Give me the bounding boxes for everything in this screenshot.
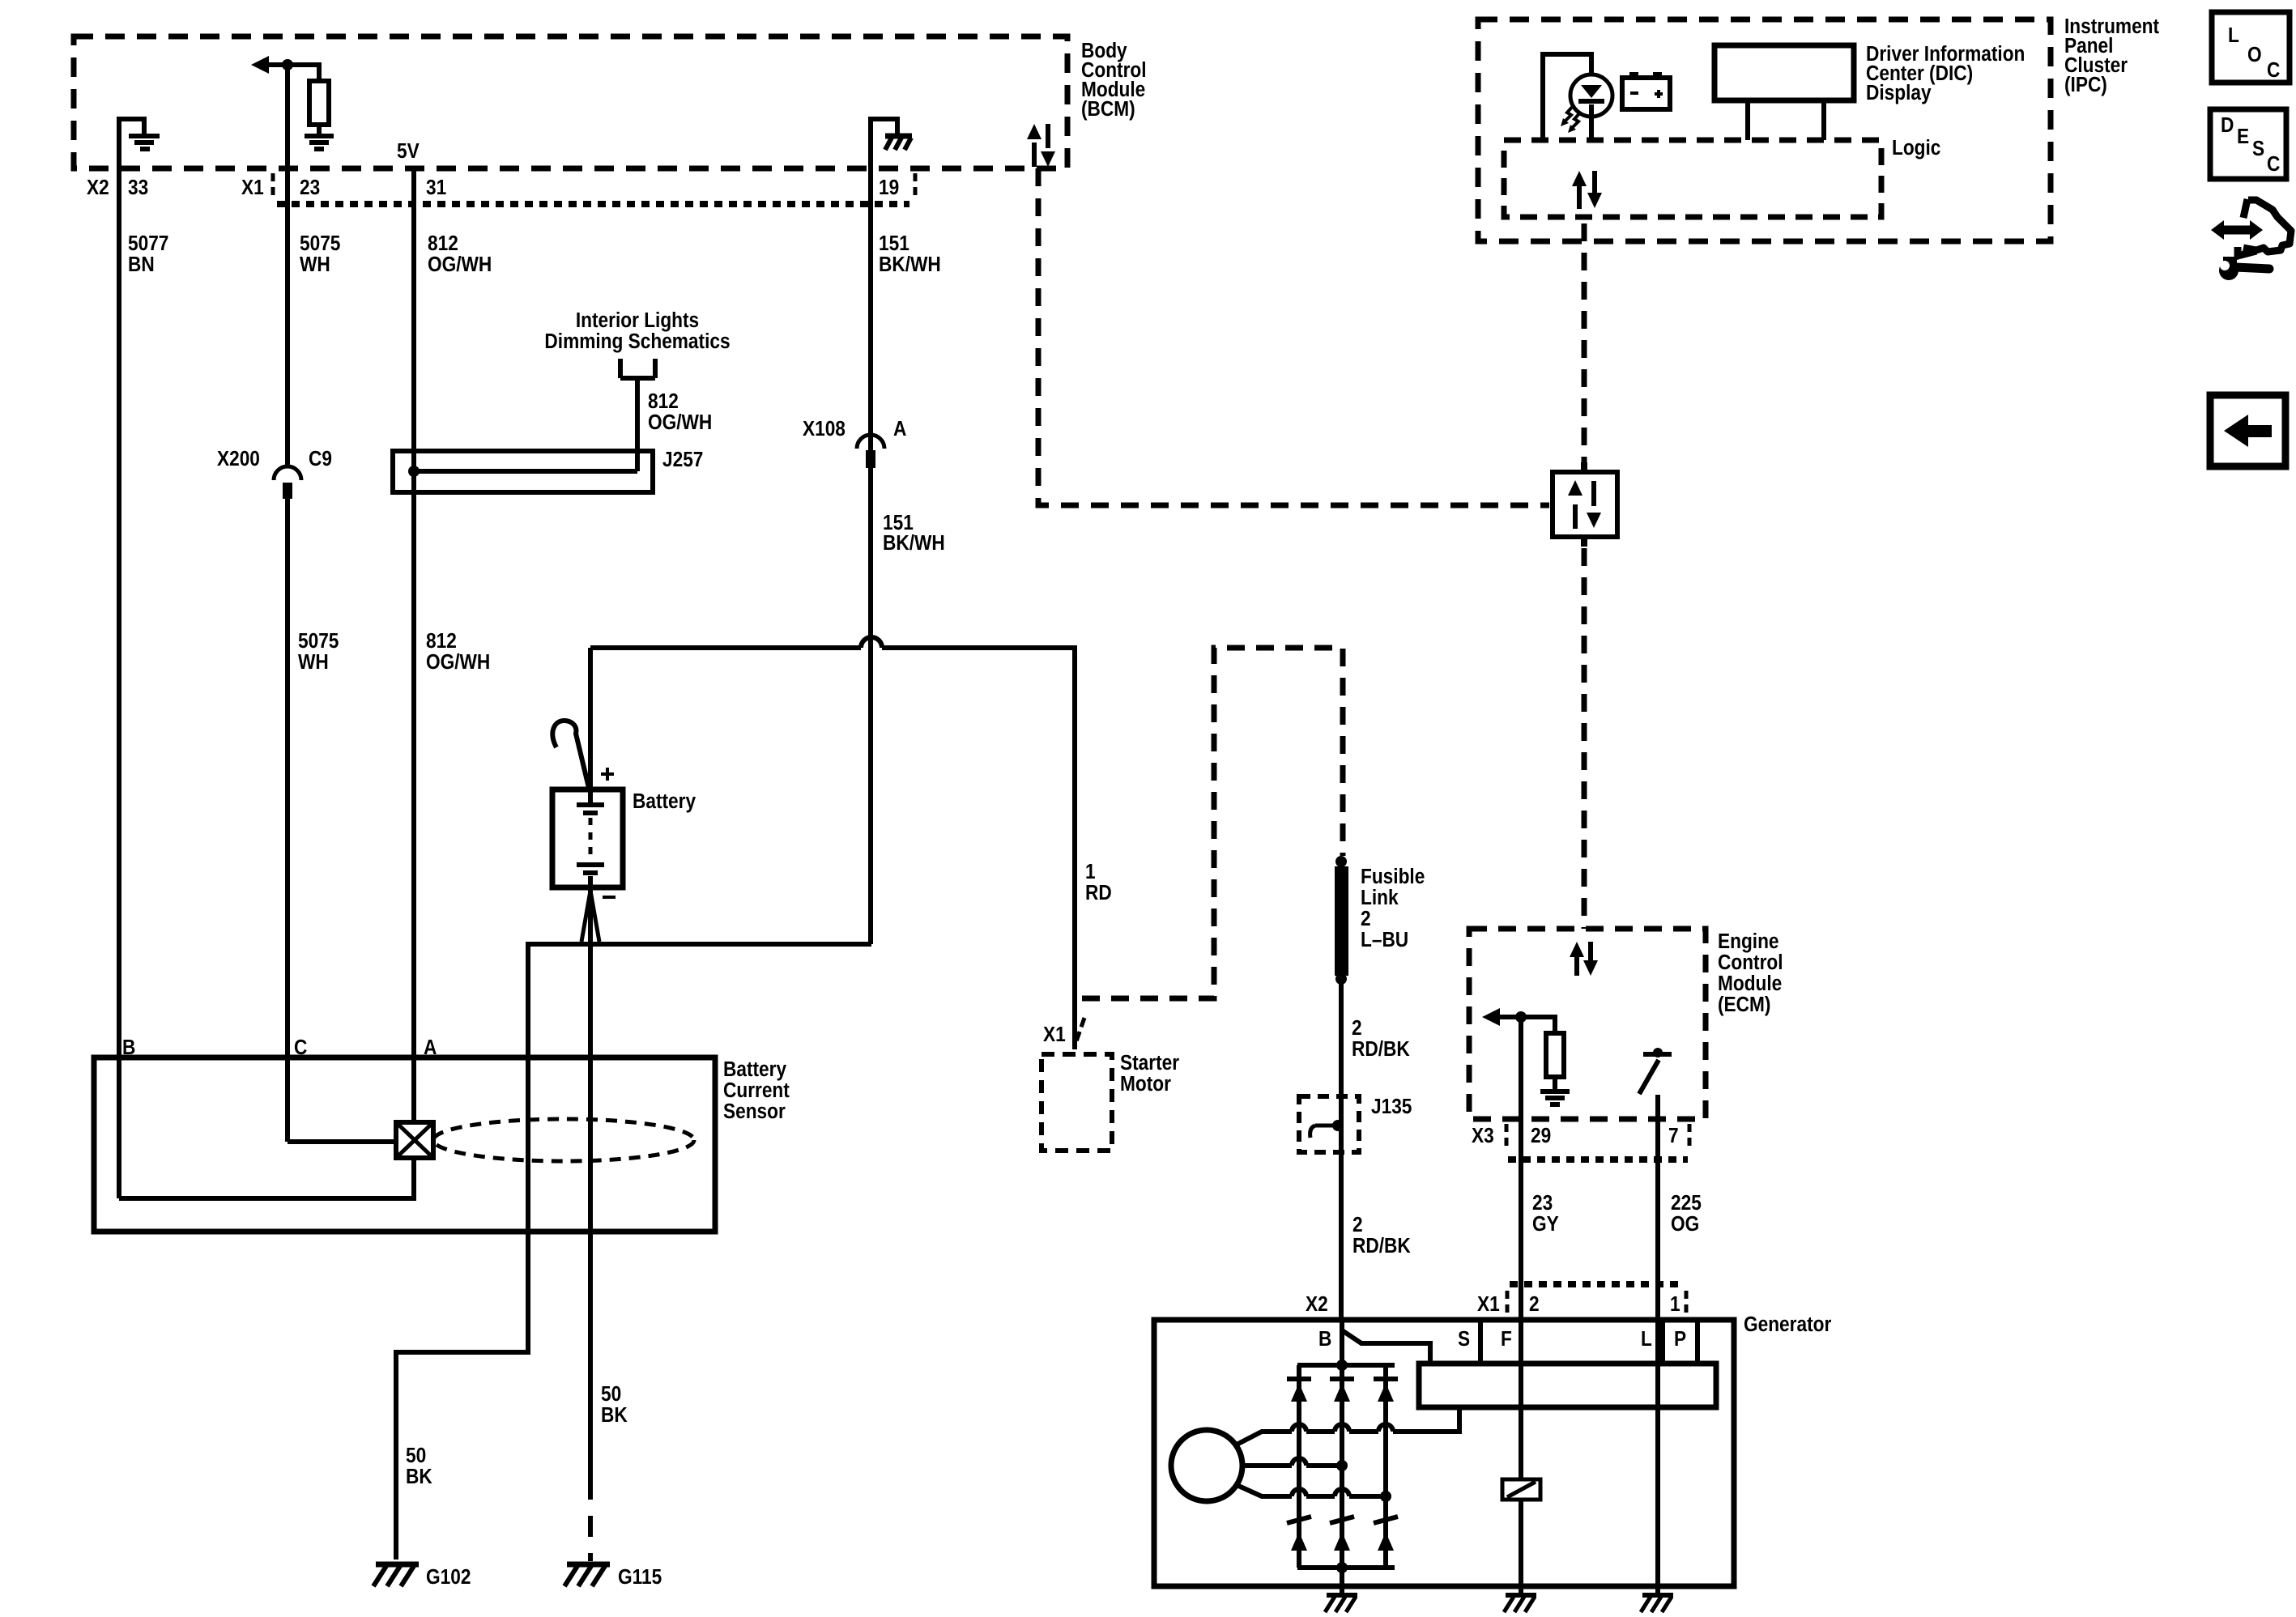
svg-text:5075: 5075 <box>300 232 340 256</box>
svg-text:Control: Control <box>1718 951 1783 975</box>
svg-text:X2: X2 <box>1306 1293 1328 1317</box>
svg-text:812: 812 <box>648 390 679 414</box>
svg-text:G102: G102 <box>426 1566 471 1589</box>
svg-text:J135: J135 <box>1371 1096 1412 1119</box>
svg-text:X200: X200 <box>217 448 260 471</box>
svg-text:(ECM): (ECM) <box>1718 994 1770 1017</box>
svg-text:2: 2 <box>1352 1214 1363 1237</box>
svg-text:A: A <box>424 1036 437 1060</box>
svg-text:RD: RD <box>1085 882 1112 905</box>
svg-text:L: L <box>1641 1328 1652 1351</box>
svg-text:X3: X3 <box>1472 1125 1494 1148</box>
svg-text:E: E <box>2237 126 2249 149</box>
svg-text:31: 31 <box>426 177 446 200</box>
svg-text:Display: Display <box>1866 82 1932 105</box>
svg-text:B: B <box>1318 1328 1331 1351</box>
svg-text:F: F <box>1501 1328 1512 1351</box>
svg-text:5077: 5077 <box>128 232 168 256</box>
svg-text:5075: 5075 <box>298 630 339 653</box>
svg-text:BK: BK <box>601 1404 628 1428</box>
svg-text:2: 2 <box>1352 1017 1362 1040</box>
svg-text:2: 2 <box>1361 908 1371 931</box>
svg-text:B: B <box>122 1036 135 1060</box>
svg-text:C9: C9 <box>309 448 332 471</box>
svg-text:P: P <box>1674 1328 1686 1351</box>
svg-text:19: 19 <box>879 177 899 200</box>
svg-text:RD/BK: RD/BK <box>1352 1038 1410 1062</box>
svg-text:Interior Lights: Interior Lights <box>576 309 699 333</box>
svg-text:G115: G115 <box>618 1566 662 1589</box>
svg-text:5V: 5V <box>397 140 420 164</box>
svg-text:Battery: Battery <box>723 1058 786 1082</box>
svg-text:X108: X108 <box>803 418 846 441</box>
svg-text:Starter: Starter <box>1120 1052 1180 1075</box>
svg-text:29: 29 <box>1531 1125 1551 1148</box>
svg-text:23: 23 <box>1532 1192 1553 1215</box>
svg-text:1: 1 <box>1085 861 1096 884</box>
svg-text:23: 23 <box>300 177 320 200</box>
svg-text:50: 50 <box>406 1445 426 1468</box>
svg-text:1: 1 <box>1670 1293 1680 1317</box>
svg-text:Dimming Schematics: Dimming Schematics <box>544 330 730 354</box>
svg-text:Fusible: Fusible <box>1361 866 1425 889</box>
svg-text:S: S <box>1458 1328 1470 1351</box>
svg-text:BK/WH: BK/WH <box>883 532 945 555</box>
svg-text:Logic: Logic <box>1892 137 1940 160</box>
svg-text:7: 7 <box>1668 1125 1679 1148</box>
svg-text:33: 33 <box>128 177 148 200</box>
svg-text:WH: WH <box>298 651 329 674</box>
svg-text:OG/WH: OG/WH <box>426 651 490 674</box>
svg-text:C: C <box>2267 59 2280 83</box>
svg-text:OG: OG <box>1671 1213 1699 1236</box>
svg-text:50: 50 <box>601 1383 621 1406</box>
svg-text:225: 225 <box>1671 1192 1702 1215</box>
svg-text:D: D <box>2221 114 2234 138</box>
svg-text:Link: Link <box>1361 887 1399 910</box>
svg-text:X2: X2 <box>87 177 109 200</box>
svg-text:BK: BK <box>406 1466 432 1489</box>
svg-text:S: S <box>2252 138 2264 161</box>
svg-text:WH: WH <box>300 253 330 277</box>
svg-text:Current: Current <box>723 1079 790 1103</box>
svg-text:O: O <box>2247 44 2262 67</box>
svg-text:BN: BN <box>128 253 155 277</box>
svg-text:Motor: Motor <box>1120 1073 1171 1096</box>
svg-text:2: 2 <box>1529 1293 1540 1317</box>
svg-text:X1: X1 <box>1043 1023 1066 1047</box>
svg-text:C: C <box>2267 153 2280 177</box>
svg-text:BK/WH: BK/WH <box>879 253 941 277</box>
svg-text:Engine: Engine <box>1718 930 1779 954</box>
svg-text:X1: X1 <box>1477 1293 1500 1317</box>
svg-text:Sensor: Sensor <box>723 1100 786 1124</box>
svg-text:L: L <box>2228 24 2239 48</box>
svg-text:C: C <box>294 1036 307 1060</box>
svg-text:Module: Module <box>1718 972 1782 996</box>
svg-text:GY: GY <box>1532 1213 1559 1236</box>
svg-text:Battery: Battery <box>633 790 696 814</box>
svg-text:151: 151 <box>879 232 909 256</box>
svg-text:J257: J257 <box>662 449 703 472</box>
svg-text:A: A <box>893 418 906 441</box>
svg-text:812: 812 <box>428 232 458 256</box>
svg-text:OG/WH: OG/WH <box>428 253 492 277</box>
svg-text:812: 812 <box>426 630 457 653</box>
svg-text:L–BU: L–BU <box>1361 929 1408 952</box>
svg-text:OG/WH: OG/WH <box>648 411 712 435</box>
svg-text:RD/BK: RD/BK <box>1352 1235 1411 1258</box>
svg-text:X1: X1 <box>241 177 264 200</box>
svg-text:Generator: Generator <box>1744 1313 1832 1337</box>
svg-text:(BCM): (BCM) <box>1081 98 1135 121</box>
svg-text:(IPC): (IPC) <box>2064 74 2107 97</box>
